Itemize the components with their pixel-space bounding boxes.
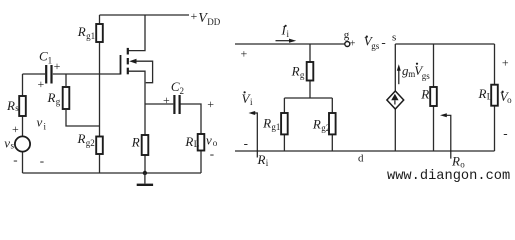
Ri hook arrow xyxy=(253,113,257,158)
svg-text:R: R xyxy=(77,131,86,146)
resistor Rg1 right xyxy=(281,113,288,134)
svg-text:g2: g2 xyxy=(321,123,330,133)
resistor RL right xyxy=(491,85,498,106)
svg-text:R: R xyxy=(262,115,271,130)
svg-text:R: R xyxy=(77,24,86,39)
svg-text:+: + xyxy=(350,39,356,50)
wire source lead xyxy=(129,71,146,173)
node g terminal circle xyxy=(345,42,350,47)
svg-text:-: - xyxy=(244,135,248,150)
wire Rg1 column right xyxy=(283,98,285,151)
svg-text:g1: g1 xyxy=(271,122,280,132)
wire RL column right xyxy=(494,44,496,151)
resistor Rg2 xyxy=(96,137,103,155)
wire s to RL xyxy=(395,43,494,45)
svg-text:v: v xyxy=(4,135,10,150)
svg-text:www.diangon.com: www.diangon.com xyxy=(387,169,510,184)
svg-text:gs: gs xyxy=(371,41,380,51)
resistor Rg left xyxy=(63,87,70,109)
svg-text:+: + xyxy=(12,122,19,136)
svg-text:+: + xyxy=(502,56,509,70)
svg-text:R: R xyxy=(291,64,300,79)
wire bottom rail right xyxy=(235,150,495,152)
transistor Q1 channel segments xyxy=(127,48,129,55)
wire gate xyxy=(53,73,121,75)
svg-text:d: d xyxy=(358,153,364,165)
wire top input to g xyxy=(235,43,345,45)
svg-text:i: i xyxy=(44,122,47,132)
svg-text:s: s xyxy=(392,31,396,43)
transistor Q1 gate bar xyxy=(120,55,122,75)
gm arrow xyxy=(398,70,400,85)
svg-text:R: R xyxy=(47,90,56,105)
ground xyxy=(144,173,146,184)
svg-text:R: R xyxy=(184,134,193,149)
svg-text:L: L xyxy=(194,139,200,149)
svg-text:s: s xyxy=(11,141,15,151)
resistor R left xyxy=(142,135,149,155)
wire R column right xyxy=(433,44,435,151)
svg-text:gs: gs xyxy=(422,71,431,81)
source vs circle xyxy=(15,136,30,151)
svg-text:R: R xyxy=(478,86,487,101)
svg-text:v: v xyxy=(37,115,43,130)
wire Rg2 column right xyxy=(331,98,333,151)
svg-text:g: g xyxy=(56,97,61,107)
resistor Rg right xyxy=(307,62,314,81)
dependent source inner arrow xyxy=(391,94,398,101)
svg-text:g1: g1 xyxy=(86,31,95,41)
svg-text:R: R xyxy=(312,117,321,132)
resistor Rg2 right xyxy=(329,113,336,134)
svg-text:R: R xyxy=(131,135,140,150)
svg-text:+: + xyxy=(163,93,170,107)
wire C1 left xyxy=(23,73,46,75)
svg-text:DD: DD xyxy=(207,17,220,27)
resistor RL left xyxy=(198,134,205,151)
current Ii arrow xyxy=(276,40,292,42)
svg-text:2: 2 xyxy=(180,86,185,96)
Ro hook arrow xyxy=(445,115,451,158)
capacitor C2 xyxy=(173,95,175,114)
svg-text:-: - xyxy=(503,125,507,140)
svg-text:g: g xyxy=(300,70,305,80)
transistor Q1 body arrow xyxy=(129,59,136,64)
svg-text:-: - xyxy=(40,153,44,168)
svg-text:R: R xyxy=(257,152,266,167)
wire input left column xyxy=(22,74,24,173)
svg-text:o: o xyxy=(507,95,512,105)
wire Rg stem xyxy=(66,74,100,126)
ground junction dot xyxy=(143,171,147,175)
svg-text:-: - xyxy=(13,152,17,167)
svg-text:+: + xyxy=(241,47,248,61)
svg-text:L: L xyxy=(487,92,493,102)
wire divider bar xyxy=(284,97,332,99)
svg-text:g2: g2 xyxy=(86,138,95,148)
svg-text:1: 1 xyxy=(48,56,53,66)
svg-text:+: + xyxy=(54,59,61,73)
svg-text:R: R xyxy=(420,86,429,101)
wire body lead xyxy=(135,61,153,82)
svg-text:i: i xyxy=(266,158,269,168)
dependent source U1 diamond xyxy=(387,91,404,109)
wire bottom rail left xyxy=(23,172,202,174)
svg-text:i: i xyxy=(287,29,290,39)
wire drain lead xyxy=(129,15,146,51)
wire top rail VDD xyxy=(100,14,190,16)
svg-text:R: R xyxy=(6,98,15,113)
resistor Rg1 xyxy=(96,24,103,42)
svg-text:+: + xyxy=(207,97,214,111)
capacitor C1 xyxy=(45,65,47,84)
svg-text:R: R xyxy=(451,154,460,169)
wire Rg1 column xyxy=(99,15,101,173)
wire RL-left column bottom xyxy=(200,151,202,174)
wire dependent source column xyxy=(394,44,396,151)
svg-text:s: s xyxy=(15,103,19,113)
resistor R right xyxy=(430,87,437,106)
wire Rg column right xyxy=(309,44,311,98)
svg-text:-: - xyxy=(381,35,385,50)
svg-text:+: + xyxy=(38,77,45,91)
svg-text:+: + xyxy=(191,9,198,23)
wire C2 row xyxy=(145,104,201,134)
resistor Rs xyxy=(19,96,26,116)
svg-text:i: i xyxy=(250,97,253,107)
svg-text:-: - xyxy=(210,146,214,161)
